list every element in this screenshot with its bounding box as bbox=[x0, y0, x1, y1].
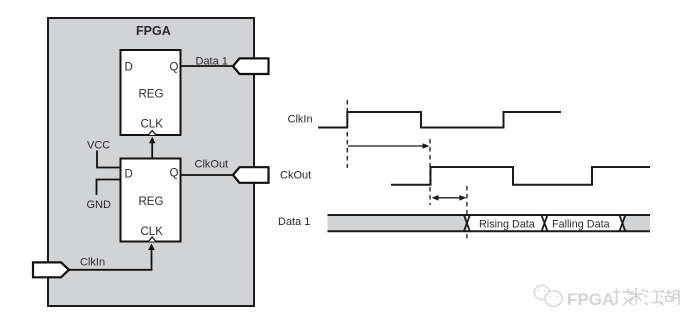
bus transition X1 bbox=[464, 215, 470, 231]
svg-text:Rising Data: Rising Data bbox=[479, 219, 535, 231]
bus transition X2 bbox=[542, 215, 548, 231]
svg-text:Q: Q bbox=[170, 168, 179, 180]
dashed marker at data transition bbox=[466, 186, 468, 240]
clock wedge REG1 bbox=[148, 131, 156, 135]
svg-text:Data 1: Data 1 bbox=[196, 56, 228, 68]
node Data 1 bus label bbox=[278, 216, 310, 228]
svg-text:D: D bbox=[125, 62, 133, 74]
svg-text:FPGA: FPGA bbox=[136, 24, 171, 38]
node Data 1 label bbox=[196, 56, 228, 68]
wire ClkIn to REG2 CLK bbox=[69, 244, 155, 270]
svg-text:CLK: CLK bbox=[141, 119, 164, 131]
watermark glyph shu bbox=[629, 288, 645, 305]
watermark glyph ji (tech) bbox=[613, 289, 634, 306]
watermark glyph hu bbox=[660, 290, 679, 306]
svg-text:ClkIn: ClkIn bbox=[288, 114, 313, 126]
clock wedge REG2 bbox=[148, 237, 156, 241]
dashed marker at CkOut rising edge bbox=[429, 139, 431, 205]
connector ClkOut output pad bbox=[233, 167, 269, 183]
register REG2 (bottom) bbox=[121, 159, 181, 242]
watermark logo icon bbox=[534, 285, 562, 306]
bus transition X3 bbox=[619, 215, 625, 231]
svg-text:ClkIn: ClkIn bbox=[80, 257, 105, 269]
FPGA label bbox=[136, 24, 171, 38]
wire Data 1 output bbox=[181, 65, 235, 67]
delay arrow ClkIn-to-CkOut bbox=[348, 143, 430, 149]
watermark glyph jiang bbox=[645, 290, 664, 305]
wire REG2-top to REG1 CLK bbox=[149, 137, 156, 159]
svg-text:Q: Q bbox=[170, 62, 179, 74]
connector Data 1 output pad bbox=[233, 58, 269, 74]
svg-text:CLK: CLK bbox=[141, 226, 164, 238]
double arrow CkOut-to-data bbox=[432, 195, 467, 201]
ground GND bbox=[87, 180, 121, 212]
node CkOut waveform label bbox=[280, 170, 311, 182]
dashed marker at ClkIn rising edge bbox=[346, 100, 348, 168]
svg-text:CkOut: CkOut bbox=[280, 170, 311, 182]
svg-text:D: D bbox=[125, 169, 133, 181]
watermark text FPGA bbox=[567, 290, 614, 309]
register REG1 (top) bbox=[121, 50, 181, 135]
svg-text:VCC: VCC bbox=[87, 140, 110, 152]
data bus Data 1 bbox=[328, 215, 651, 231]
svg-text:ClkOut: ClkOut bbox=[195, 159, 229, 171]
svg-text:FPGA: FPGA bbox=[567, 290, 614, 309]
bus cell label Falling Data bbox=[552, 219, 610, 231]
waveform CkOut bbox=[391, 167, 650, 185]
node ClkIn waveform label bbox=[288, 114, 313, 126]
waveform ClkIn bbox=[318, 112, 561, 128]
wire ClkOut output bbox=[181, 174, 235, 176]
connector ClkIn input pad bbox=[33, 262, 69, 277]
svg-text:Falling Data: Falling Data bbox=[552, 219, 610, 231]
power VCC bbox=[87, 140, 121, 168]
FPGA block outline bbox=[48, 18, 254, 306]
bus cell label Rising Data bbox=[479, 219, 535, 231]
watermark text jishujianghu bbox=[613, 288, 679, 305]
svg-text:Data 1: Data 1 bbox=[278, 216, 310, 228]
node ClkIn label bbox=[80, 257, 105, 269]
svg-text:GND: GND bbox=[87, 199, 112, 211]
node ClkOut label bbox=[195, 159, 229, 171]
svg-text:REG: REG bbox=[139, 196, 164, 208]
svg-text:REG: REG bbox=[139, 89, 164, 101]
